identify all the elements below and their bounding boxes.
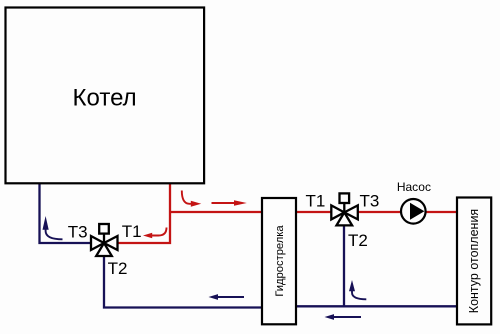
svg-text:Котел: Котел	[73, 85, 137, 112]
svg-text:T2: T2	[348, 231, 368, 250]
svg-text:T2: T2	[108, 259, 128, 278]
svg-text:Контур отопления: Контур отопления	[467, 209, 481, 313]
svg-text:T1: T1	[122, 222, 142, 241]
svg-text:Гидрострелка: Гидрострелка	[274, 225, 286, 297]
svg-text:T3: T3	[360, 192, 380, 211]
svg-text:T1: T1	[306, 192, 326, 211]
svg-text:Насос: Насос	[397, 180, 431, 194]
svg-text:T3: T3	[68, 223, 88, 242]
